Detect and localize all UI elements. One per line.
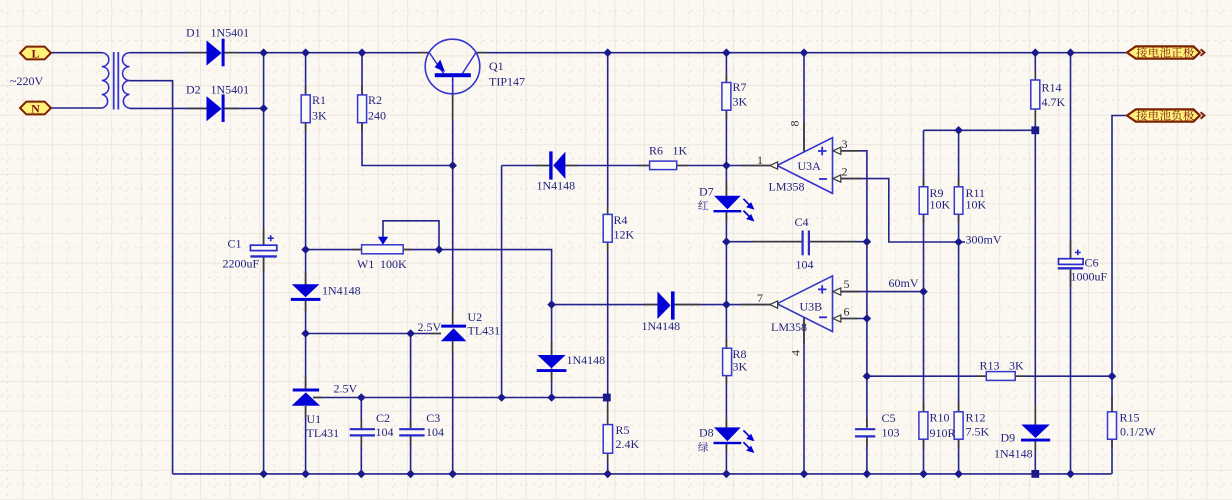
node ground C2 — [357, 470, 366, 479]
svg-text:2: 2 — [842, 165, 848, 179]
svg-text:R10: R10 — [930, 411, 950, 425]
svg-text:R13: R13 — [980, 359, 1000, 373]
node ground C1 — [259, 470, 268, 479]
wire stub diode row1 pins — [536, 165, 578, 167]
wire stub C5 pins — [866, 419, 868, 446]
capacitor C4 104 horizontal — [801, 231, 803, 256]
wire stub Q1 emitter collector base — [418, 53, 487, 120]
wire R12 bottom to ground rail — [958, 439, 960, 474]
wire stub D9 pins — [1034, 404, 1036, 452]
svg-text:12K: 12K — [614, 228, 635, 242]
wire stub U1 pins — [306, 376, 324, 418]
node R1 top rail — [301, 48, 310, 57]
wire R5 bottom to ground rail — [607, 453, 609, 474]
node R2 top rail — [358, 48, 367, 57]
transformer T secondary winding — [122, 53, 129, 108]
svg-text:U1: U1 — [307, 412, 322, 426]
svg-text:4: 4 — [789, 350, 803, 356]
svg-text:3K: 3K — [312, 109, 327, 123]
wire D7 cathode down through pin7 row to R8 — [725, 212, 727, 348]
wire stub R13 pins — [975, 375, 1026, 377]
svg-text:5: 5 — [844, 277, 850, 291]
resistor R11 — [954, 187, 963, 215]
wire Q1 base down to U2 cathode — [452, 77, 454, 325]
wire stub D5 pins — [644, 304, 700, 306]
svg-text:D9: D9 — [1001, 431, 1016, 445]
wire stub R4 pins — [607, 206, 609, 252]
node C4 right — [863, 237, 872, 246]
node R14 feed end square — [1031, 126, 1039, 134]
transistor Q1 TIP147 — [425, 39, 480, 94]
svg-text:U3B: U3B — [800, 300, 823, 314]
node ground R5 — [603, 470, 612, 479]
wire W1 wiper loop — [383, 221, 439, 250]
svg-text:N: N — [31, 102, 40, 116]
diode D3 1N4148 under R1 — [292, 284, 320, 297]
svg-text:R4: R4 — [614, 213, 628, 227]
wire N to transformer primary bottom — [51, 107, 102, 109]
node R6 R7 pin1 row — [722, 161, 731, 170]
wire R6 right to U3A pin1 — [677, 165, 771, 167]
resistor R15 — [1108, 412, 1117, 439]
resistor R2 — [358, 95, 367, 123]
capacitor C2 104 — [350, 428, 375, 430]
svg-text:1K: 1K — [673, 144, 688, 158]
label D8 value green — [698, 442, 708, 452]
svg-text:2.5V: 2.5V — [334, 382, 358, 396]
diode D5 1N4148 pointing right on pin7 row — [657, 291, 670, 319]
node ground D9 square — [1031, 470, 1039, 478]
svg-text:C4: C4 — [795, 215, 809, 229]
wire diode D4 anode to R6 — [565, 165, 649, 167]
wire C2 top lead — [360, 398, 362, 429]
regulator U1 TL431 — [293, 389, 319, 392]
wire top rail to R4 chain — [607, 53, 609, 215]
wire battery minus port down to R15 — [1112, 116, 1127, 412]
wire top rail to R14 — [1034, 53, 1036, 80]
svg-text:TIP147: TIP147 — [489, 75, 525, 89]
wire stub U3A pin3 lead — [841, 150, 860, 152]
svg-text:C3: C3 — [426, 411, 440, 425]
LED D8 green — [714, 427, 741, 441]
wire R15 bottom to ground rail end — [1111, 439, 1113, 474]
wire stub D6 pins — [551, 342, 553, 382]
wire bottom ground rail — [173, 473, 1112, 475]
svg-text:1N4148: 1N4148 — [567, 353, 606, 367]
wire stub C1 pins — [263, 228, 265, 272]
wire stub C2 pins — [360, 420, 362, 445]
svg-text:1N4148: 1N4148 — [537, 179, 576, 193]
wire stub R8 pins — [725, 339, 727, 384]
wire R4 bottom to R5 top — [607, 242, 609, 424]
resistor R4 — [603, 214, 612, 242]
node pin8 top rail — [800, 48, 809, 57]
svg-text:1000uF: 1000uF — [1071, 270, 1108, 284]
wire top rail to R7 — [725, 53, 727, 83]
wire stub U3A pin8 lead — [803, 122, 805, 152]
capacitor C3 104 — [399, 428, 424, 430]
wire C4 left to D7 chain — [726, 241, 801, 243]
svg-text:7.5K: 7.5K — [966, 425, 990, 439]
wire pin7 node down to diode D6 — [551, 305, 553, 355]
svg-text:R5: R5 — [616, 423, 630, 437]
wire W1 left terminal to R1 branch — [306, 249, 362, 251]
node R4 top rail — [603, 48, 612, 57]
svg-text:W1: W1 — [357, 257, 374, 271]
svg-text:LM358: LM358 — [771, 320, 807, 334]
wire stub D1 pins — [188, 52, 238, 54]
svg-text:R14: R14 — [1042, 81, 1062, 95]
wire R2 bottom to Q1 base node — [362, 123, 453, 166]
node ground C5 — [863, 470, 872, 479]
wire L to transformer primary top — [51, 52, 102, 54]
svg-text:R2: R2 — [368, 93, 382, 107]
node Q1 base R2 — [448, 161, 457, 170]
node R14 top rail — [1031, 48, 1040, 57]
svg-text:Q1: Q1 — [489, 59, 504, 73]
wire stub U3A pin1 lead — [741, 165, 771, 167]
node C6 top rail — [1066, 48, 1075, 57]
node ground R12 — [954, 470, 963, 479]
node D2 cathode — [259, 104, 268, 113]
svg-text:8: 8 — [788, 121, 802, 127]
pin arrow U3B pin6 — [833, 315, 841, 322]
svg-text:TL431: TL431 — [468, 324, 501, 338]
wire D9 cathode to ground rail — [1034, 442, 1036, 474]
wire C2 bottom to ground rail — [360, 436, 362, 474]
node ground R10 — [919, 470, 928, 479]
svg-text:10K: 10K — [930, 198, 951, 212]
wire pin7 row to diode D5 — [552, 304, 658, 306]
wire stub D8 pins — [725, 418, 727, 452]
regulator U2 TL431 — [441, 325, 466, 328]
wire R10 bottom to ground rail — [923, 439, 925, 474]
wire U3B pin5 to 60mV node — [841, 291, 924, 293]
svg-text:R12: R12 — [966, 411, 986, 425]
svg-text:U2: U2 — [468, 310, 483, 324]
diode D9 1N4148 — [1021, 425, 1050, 439]
wire D2 cathode to node — [225, 107, 264, 109]
wire R13 row left — [867, 375, 986, 377]
wire D1 cathode to Q1 emitter (top rail left) — [225, 52, 429, 54]
wire C4 right plate to vertical — [808, 241, 867, 243]
node ref row corner branch — [497, 393, 506, 402]
pin arrow U3A pin1 — [770, 162, 778, 169]
capacitor C1 2200uF polarized — [250, 245, 276, 250]
wire stub C3 pins — [410, 420, 412, 445]
wire stub R5 pins — [607, 404, 609, 462]
wire R14 bottom down through feed node to D9 — [1034, 109, 1036, 425]
svg-text:1N4148: 1N4148 — [994, 447, 1033, 461]
wire diode row left segment — [502, 165, 550, 167]
wire U3B pin4 down to ground rail — [803, 318, 805, 474]
node pin6 — [863, 314, 872, 323]
wire stub R14 pins — [1034, 72, 1036, 123]
wire stub U3B pin6 lead — [841, 318, 858, 320]
pin arrow U3A pin3 — [833, 147, 841, 154]
wire R11 bottom through 300mV node to R12 — [958, 214, 960, 411]
wire stub U2 pins — [430, 311, 453, 353]
port L — [20, 47, 51, 60]
svg-text:2.5V: 2.5V — [418, 320, 442, 334]
diode D1 1N5401 — [207, 40, 222, 65]
wire stub R1 pins — [305, 86, 307, 131]
svg-text:104: 104 — [426, 425, 444, 439]
svg-text:103: 103 — [882, 426, 900, 440]
wire stub D7 pins — [725, 182, 727, 222]
node R13 battery minus — [1108, 372, 1117, 381]
svg-text:3K: 3K — [733, 95, 748, 109]
svg-text:10K: 10K — [966, 198, 987, 212]
resistor R13 3K horizontal — [986, 372, 1015, 381]
transformer T primary winding — [102, 53, 109, 108]
wire W1 right terminal — [403, 249, 439, 251]
svg-text:3: 3 — [842, 137, 848, 151]
svg-text:4.7K: 4.7K — [1042, 95, 1066, 109]
resistor R5 — [603, 425, 612, 454]
node R13 row left — [863, 372, 872, 381]
wire stub R6 pins — [638, 165, 688, 167]
node 60mV R9 — [919, 287, 928, 296]
svg-text:2.4K: 2.4K — [616, 437, 640, 451]
svg-text:D7: D7 — [699, 185, 714, 199]
wire transformer secondary top to D1 — [129, 52, 206, 54]
svg-text:R1: R1 — [312, 93, 326, 107]
node C4 left D7 chain — [722, 237, 731, 246]
svg-text:910R: 910R — [930, 426, 956, 440]
node W1 left — [301, 245, 310, 254]
svg-text:C1: C1 — [228, 237, 242, 251]
wire stub U3B pin4 lead — [803, 318, 805, 344]
wire diode D6 cathode down to ref row — [551, 369, 553, 398]
svg-text:C6: C6 — [1085, 256, 1099, 270]
svg-text:LM358: LM358 — [769, 180, 805, 194]
svg-text:104: 104 — [796, 258, 814, 272]
svg-text:R15: R15 — [1120, 411, 1140, 425]
svg-text:3K: 3K — [1009, 359, 1024, 373]
wire U3A pin3 corner down to C4 node — [841, 151, 867, 242]
svg-text:6: 6 — [844, 305, 850, 319]
wire R13 right to battery minus vertical — [1015, 375, 1112, 377]
wire stub D2 pins — [188, 107, 238, 109]
wire stub R7 pins — [725, 74, 727, 119]
svg-text:1: 1 — [757, 153, 763, 167]
wire C4 node down through pin6 and R13 rows to C5 — [866, 242, 868, 428]
wire R7 bottom to D7 — [725, 110, 727, 196]
port N — [20, 102, 51, 115]
wire 2.5V row U1 ref node to U2 ref — [306, 333, 441, 335]
svg-text:U3A: U3A — [798, 159, 822, 173]
node ref row R4 square — [603, 394, 611, 402]
wire Q1 collector to battery plus port (top rail right) — [476, 52, 1127, 54]
wire stub W1 pins — [352, 249, 412, 251]
svg-text:TL431: TL431 — [307, 426, 340, 440]
resistor R9 — [919, 187, 928, 215]
wire stub C4 pins — [752, 241, 856, 243]
wire stub R10 pins — [923, 402, 925, 448]
node ref row D6 — [547, 393, 556, 402]
label D7 value red — [698, 200, 708, 209]
svg-text:3K: 3K — [733, 360, 748, 374]
pin arrow U3B pin5 — [833, 288, 841, 295]
svg-text:C2: C2 — [376, 411, 390, 425]
svg-text:C5: C5 — [882, 411, 896, 425]
svg-text:1N5401: 1N5401 — [211, 83, 250, 97]
wire U2 anode down to ground rail — [452, 341, 454, 474]
svg-text:104: 104 — [376, 425, 394, 439]
wire transformer secondary bottom to D2 — [129, 107, 206, 109]
node W1 wiper right — [435, 245, 444, 254]
node ref row C2 — [357, 393, 366, 402]
resistor R8 — [723, 348, 732, 375]
wire top rail to C6 — [1070, 53, 1072, 259]
wire C1 bottom to ground rail — [263, 256, 265, 474]
svg-text:7: 7 — [757, 291, 763, 305]
resistor R10 — [919, 412, 928, 439]
resistor R1 — [301, 95, 310, 123]
wire U1 anode to ground rail — [305, 406, 307, 474]
node R11 feed — [954, 126, 963, 135]
svg-text:1N5401: 1N5401 — [211, 26, 250, 40]
svg-text:240: 240 — [368, 109, 386, 123]
svg-text:R7: R7 — [733, 80, 747, 94]
wire stub U3B pin7 lead — [741, 304, 771, 306]
node ground U2 — [448, 470, 457, 479]
node ground U1 — [301, 470, 310, 479]
wire R1 bottom to 1N4148 D3 — [305, 123, 307, 285]
diode D6 1N4148 pointing down above ref row — [537, 355, 565, 368]
node ground C3 — [406, 470, 415, 479]
wire 2.5V node down to C3 — [410, 334, 412, 429]
wire stub R11 pins — [958, 178, 960, 223]
wire stub D3 pins — [305, 272, 307, 312]
transformer T core — [114, 52, 119, 110]
svg-text:100K: 100K — [380, 257, 407, 271]
wire stub U3A pin2 lead — [841, 178, 862, 180]
wire corner down from diode row to ref row — [501, 166, 503, 398]
svg-text:~220V: ~220V — [10, 74, 43, 88]
node 300mV R11 — [954, 238, 963, 247]
svg-text:R6: R6 — [649, 144, 663, 158]
wire D8 cathode to ground rail — [725, 444, 727, 474]
svg-text:D1: D1 — [186, 26, 201, 40]
LED D7 red — [714, 196, 741, 210]
svg-text:1N4148: 1N4148 — [322, 284, 361, 298]
node pin7 row left — [547, 300, 556, 309]
wire R11 top lead — [958, 130, 960, 187]
op-amp U3A LM358 — [777, 138, 833, 194]
wire stub U3B pin5 lead — [841, 291, 860, 293]
wire U3B pin6 — [841, 318, 867, 320]
wire U1 ref row to R4-R5 node — [313, 397, 607, 399]
diode D4 1N4148 pointing left on pin1 row — [549, 151, 552, 179]
pin arrow U3A pin2 — [833, 175, 841, 182]
resistor R14 — [1031, 80, 1040, 109]
svg-text:1N4148: 1N4148 — [642, 319, 681, 333]
capacitor C5 103 — [855, 428, 875, 430]
wire top rail to R1 — [305, 53, 307, 95]
svg-text:0.1/2W: 0.1/2W — [1120, 425, 1156, 439]
wire stub R9 pins — [923, 178, 925, 223]
svg-text:L: L — [31, 47, 39, 61]
wire D3 cathode to U1 — [305, 301, 307, 390]
resistor R7 — [722, 83, 731, 111]
diode D2 1N5401 — [207, 96, 222, 121]
label port battery minus text — [1136, 110, 1194, 121]
node 2.5V row C3 — [406, 329, 415, 338]
node pin7 row D7 chain — [722, 300, 731, 309]
op-amp U3B LM358 — [777, 276, 833, 332]
resistor R12 — [954, 412, 963, 439]
wire C5 bottom to ground rail — [866, 438, 868, 474]
wire stub R2 pins — [361, 86, 363, 131]
wire diode D5 cathode to U3B pin7 — [675, 304, 771, 306]
potentiometer W1 100K — [362, 245, 404, 254]
svg-text:D8: D8 — [699, 426, 714, 440]
svg-text:D2: D2 — [186, 83, 201, 97]
wire R9 bottom through 60mV node to R10 — [923, 214, 925, 411]
wire stub C6 pins — [1070, 240, 1072, 287]
pin arrow U3B pin7 — [770, 301, 778, 308]
wire C6 bottom to ground rail — [1070, 269, 1072, 474]
node D1 cathode top rail — [259, 48, 268, 57]
wire U3A pin2 corner down to 300mV row — [841, 179, 965, 242]
port battery minus — [1127, 109, 1200, 121]
svg-text:2200uF: 2200uF — [223, 257, 260, 271]
node R7 top rail — [722, 48, 731, 57]
node ground D8 — [722, 470, 731, 479]
wire U3A pin8 from top rail — [803, 53, 805, 152]
capacitor C6 1000uF polarized — [1059, 259, 1084, 265]
wire C3 bottom to ground rail — [410, 436, 412, 474]
wire R8 bottom to D8 — [725, 376, 727, 428]
node 2.5V row left — [301, 329, 310, 338]
label port battery plus text — [1136, 47, 1194, 57]
wire transformer center tap — [129, 81, 172, 474]
svg-text:300mV: 300mV — [966, 233, 1002, 247]
wire stub R12 pins — [958, 402, 960, 448]
wire R9 R11 top feed row — [924, 130, 1036, 187]
port battery plus — [1127, 46, 1200, 58]
resistor R6 1K horizontal — [650, 161, 677, 170]
node ground pin4 — [800, 470, 809, 479]
wire vertical D1 node down through D2 node to C1 — [263, 53, 265, 246]
wire top rail to R2 — [361, 53, 363, 95]
wire stub R15 pins — [1111, 396, 1113, 448]
wire W1 right to corner down to pin7 row — [439, 250, 552, 305]
svg-text:60mV: 60mV — [889, 276, 919, 290]
node ground C6 — [1066, 470, 1075, 479]
